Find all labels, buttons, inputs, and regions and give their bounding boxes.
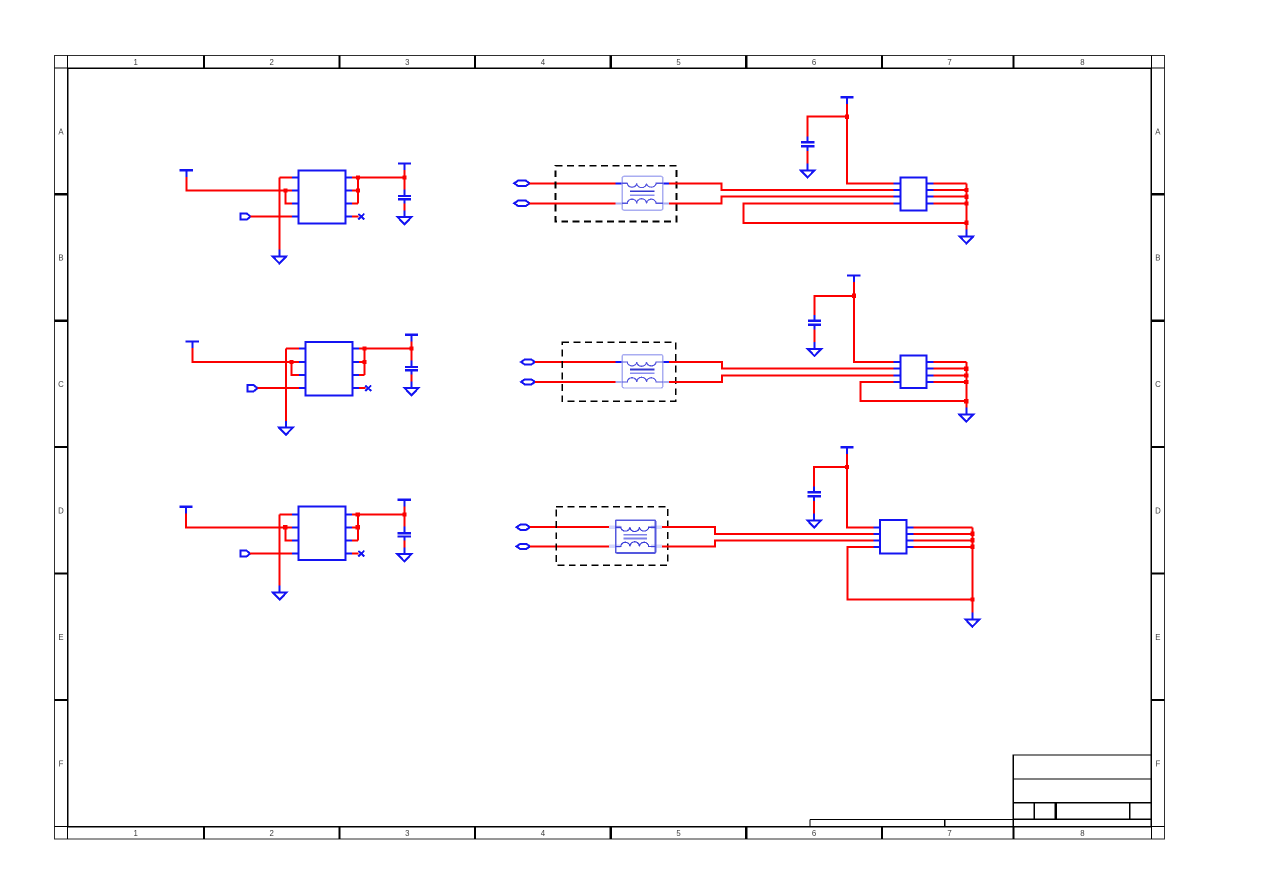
svg-text:3: 3 [405, 58, 409, 67]
wire vertical R1-R3 [357, 515, 359, 541]
power port bar row3R [840, 447, 853, 454]
wire R3 link [352, 539, 358, 541]
wire U11 right pin y197 to bus [933, 196, 966, 198]
shield box (dashed) row2 [562, 342, 676, 401]
svg-text:4: 4 [541, 58, 546, 67]
svg-text:A: A [58, 127, 64, 136]
wire U31 right pin y547 to bus [913, 546, 972, 548]
wire R2 stub [359, 361, 365, 363]
junction bus row1 y190 [964, 188, 968, 192]
junction C10 top [402, 175, 406, 179]
wire junction to C30 [403, 515, 405, 527]
power port bar VCC row1L [180, 170, 193, 177]
wire junction down to pin3 [286, 191, 293, 204]
svg-text:2: 2 [270, 58, 274, 67]
svg-text:1: 1 [134, 58, 138, 67]
ground GND row1L [273, 250, 287, 264]
junction bus row1 y203 [964, 201, 968, 205]
svg-text:C: C [58, 380, 64, 389]
junction node VCC/pin2 row3L [283, 525, 287, 529]
wire T3 lower to U31 pin3 [662, 540, 873, 546]
ground GND row3L [273, 586, 287, 600]
wire T1 lower to U11 pin3 [669, 197, 894, 204]
wire power to junction C20 [411, 341, 413, 348]
transformer T1 [616, 176, 669, 210]
wire junction down to pin3 [292, 362, 300, 375]
wire pin4 bypass row3 [847, 547, 972, 600]
junction R2 row3L [356, 525, 360, 529]
svg-text:7: 7 [947, 829, 951, 838]
capacitor C10 [398, 190, 411, 204]
svg-text:2: 2 [270, 829, 274, 838]
wire ground bus row3 [971, 527, 973, 612]
wire power to junction C30 [403, 506, 405, 514]
wire pin5(R1) to capacitor C20 [359, 347, 412, 349]
power port bar VCC row3L [179, 507, 192, 514]
port P2 input [248, 385, 258, 391]
svg-text:E: E [1155, 633, 1160, 642]
svg-text:B: B [58, 254, 63, 263]
IC U11 body [900, 177, 926, 210]
power port bar for C20 [405, 335, 418, 342]
wire J2B to transformer T2 [535, 381, 616, 383]
junction bus/bypass row3 [970, 598, 974, 602]
shield box (dashed) row3 [556, 507, 668, 565]
IC U20 body [306, 342, 353, 395]
wire U21 right pin y369 to bus [934, 368, 967, 370]
wire J3A to transformer T3 [530, 526, 609, 528]
svg-text:E: E [58, 633, 63, 642]
junction bus/bypass row1 [964, 221, 968, 225]
IC U11 pins [894, 183, 934, 203]
wire power branch to C21 [815, 296, 854, 315]
wire power branch to C11 [808, 117, 847, 137]
wire U11 right pin y183 to bus [933, 182, 966, 184]
svg-text:1: 1 [134, 829, 138, 838]
wire R2 stub [352, 190, 358, 192]
wire C21 to ground [814, 330, 816, 343]
wire ground drop vertical [285, 348, 287, 420]
junction R2 row2L [362, 360, 366, 364]
junction node VCC/pin2 row2L [289, 360, 293, 364]
wire ground bus row1 [965, 183, 967, 229]
svg-text:F: F [59, 759, 64, 768]
wire pin5(R1) to capacitor C10 [352, 176, 405, 178]
wire no-connect stub R4 [352, 216, 359, 218]
junction power row3R [845, 465, 849, 469]
junction R2 row1L [356, 189, 360, 193]
no-ERC marker row1L [358, 214, 364, 220]
IC U30 pins [292, 515, 352, 554]
ground GND under C10 [398, 210, 412, 224]
wire power to junction C10 [404, 170, 406, 177]
wire U11 right pin y190 to bus [933, 189, 966, 191]
power port bar for C10 [398, 163, 411, 170]
wire pin1 to ground drop [286, 347, 299, 349]
wire U21 right pin y375 to bus [934, 374, 967, 376]
wire R3 link [352, 202, 358, 204]
capacitor C31 [808, 487, 821, 501]
junction bus row3 y547 [970, 545, 974, 549]
wire power to U31 pin1 [847, 467, 873, 527]
capacitor C21 [808, 315, 821, 329]
wire VCC to U10 pin2 net [186, 177, 285, 191]
IC U31 body [880, 520, 906, 554]
ground GND row1R [960, 230, 974, 244]
junction power row1R [845, 115, 849, 119]
junction R1/vertical row1L [356, 175, 360, 179]
ground GND row2L [279, 421, 293, 435]
wire pin1 to ground drop [279, 176, 292, 178]
wire VCC to U20 pin2 net [192, 348, 291, 362]
ground GND row3R [966, 613, 980, 627]
junction bus row3 y540 [970, 538, 974, 542]
svg-text:8: 8 [1080, 58, 1084, 67]
ground GND row2R [959, 408, 973, 422]
junction bus row2 y382 [964, 380, 968, 384]
wire ground drop vertical [278, 177, 280, 249]
connector pad J1A [514, 181, 530, 186]
wire T2 upper to U21 pin2 [669, 362, 894, 369]
wire T2 lower to U21 pin3 [669, 375, 894, 382]
wire power to U11 pin1 [847, 117, 894, 184]
title block [810, 755, 1151, 827]
svg-text:3: 3 [405, 829, 409, 838]
capacitor C30 [398, 527, 411, 541]
IC U20 pins [299, 348, 359, 388]
wire P1 to pin4 [251, 216, 293, 218]
port P1 input [241, 214, 251, 220]
junction R1/vertical row2L [362, 346, 366, 350]
wire R3 link [359, 374, 365, 376]
wire junction to pin2 [292, 361, 300, 363]
IC U31 pins [873, 527, 913, 547]
wire junction to C10 [404, 177, 406, 189]
svg-text:8: 8 [1080, 829, 1084, 838]
svg-text:A: A [1155, 127, 1161, 136]
svg-text:D: D [1155, 507, 1161, 516]
IC U10 body [299, 170, 346, 223]
no-ERC marker row2L [365, 385, 371, 391]
wire ground drop vertical [279, 515, 281, 586]
wire power stem row1R [846, 104, 848, 117]
wire ground bus row2 [965, 362, 967, 408]
svg-text:6: 6 [812, 58, 816, 67]
junction bus row2 y375 [964, 373, 968, 377]
junction C20 top [409, 346, 413, 350]
wire T3 upper to U31 pin2 [662, 527, 873, 534]
power port bar VCC row2L [186, 342, 199, 349]
connector pad J3A [517, 525, 531, 530]
wire T1 upper to U11 pin2 [669, 183, 894, 190]
wire pin5(R1) to capacitor C30 [352, 514, 404, 516]
svg-text:C: C [1155, 380, 1161, 389]
junction node VCC/pin2 row1L [283, 189, 287, 193]
power port bar row2R [847, 276, 860, 283]
svg-text:D: D [58, 507, 64, 516]
shield box (dashed) row1 [556, 166, 677, 222]
svg-text:5: 5 [676, 58, 681, 67]
svg-text:7: 7 [947, 58, 951, 67]
wire U21 right pin y382 to bus [934, 381, 967, 383]
IC U21 pins [894, 362, 934, 382]
wire J1A to transformer T1 [530, 182, 616, 184]
wire power stem row3R [846, 454, 848, 467]
wire U31 right pin y534 to bus [913, 533, 972, 535]
wire junction to pin2 [285, 526, 292, 528]
power port bar row1R [840, 97, 853, 104]
wire P2 to pin4 [258, 387, 300, 389]
sheet reference border [55, 56, 1165, 840]
wire power stem row2R [853, 282, 855, 296]
junction bus/bypass row2 [964, 399, 968, 403]
wire junction down to pin3 [285, 527, 292, 540]
connector pad J3B [517, 544, 531, 549]
junction bus row2 y369 [964, 367, 968, 371]
connector pad J2B [521, 379, 535, 384]
wire power to U21 pin1 [854, 296, 894, 362]
connector pad J1B [514, 201, 530, 206]
IC U30 body [299, 507, 346, 560]
wire U31 right pin y527 to bus [913, 526, 972, 528]
wire U31 right pin y540 to bus [913, 539, 972, 541]
wire J1B to transformer T1 [530, 202, 616, 204]
wire no-connect stub R4 [359, 387, 366, 389]
IC U10 pins [292, 177, 352, 216]
svg-text:4: 4 [541, 829, 546, 838]
capacitor C20 [405, 361, 418, 375]
wire U11 right pin y203 to bus [933, 202, 966, 204]
junction C30 top [402, 512, 406, 516]
wire junction to pin2 [286, 190, 293, 192]
junction R1/vertical row3L [356, 512, 360, 516]
wire junction to C20 [411, 348, 413, 360]
wire J2A to transformer T2 [535, 361, 616, 363]
connector pad J2A [521, 359, 535, 364]
wire J3B to transformer T3 [530, 545, 609, 547]
capacitor C11 [801, 137, 814, 151]
port P3 input [240, 551, 250, 557]
wire vertical R1-R3 [357, 177, 359, 203]
no-ERC marker row3L [358, 551, 364, 557]
wire power branch to C31 [814, 467, 847, 487]
wire C30 to ground [403, 541, 405, 555]
transformer T3 [609, 520, 662, 553]
svg-text:5: 5 [676, 829, 681, 838]
ground GND under C30 [398, 547, 412, 561]
wire pin4 bypass row1 [743, 203, 966, 222]
ground GND under C21 [808, 342, 822, 356]
wire U21 right pin y362 to bus [934, 361, 967, 363]
ground GND under C20 [405, 381, 419, 395]
wire P3 to pin4 [250, 553, 292, 555]
IC U21 body [900, 356, 926, 389]
wire pin1 to ground drop [280, 514, 293, 516]
junction bus row3 y534 [970, 532, 974, 536]
wire R2 stub [352, 526, 358, 528]
transformer T2 [616, 355, 669, 388]
junction bus row1 y197 [964, 195, 968, 199]
ground GND under C11 [801, 164, 815, 178]
wire VCC to U30 pin2 net [186, 513, 285, 527]
svg-text:F: F [1156, 759, 1161, 768]
wire C20 to ground [411, 375, 413, 389]
wire no-connect stub R4 [352, 553, 359, 555]
wire C11 to ground [807, 151, 809, 164]
ground GND under C31 [807, 514, 821, 528]
wire C10 to ground [404, 204, 406, 218]
wire vertical R1-R3 [363, 348, 365, 375]
svg-text:6: 6 [812, 829, 816, 838]
svg-text:B: B [1155, 254, 1160, 263]
power port bar for C30 [398, 500, 411, 507]
junction power row2R [852, 294, 856, 298]
wire pin4 bypass row2 [860, 382, 966, 401]
wire C31 to ground [813, 501, 815, 514]
